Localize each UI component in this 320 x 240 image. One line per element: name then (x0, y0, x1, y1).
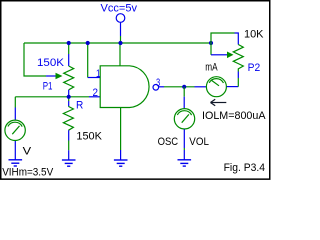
svg-text:1: 1 (96, 68, 101, 80)
nand gate U1 pin 3 stub (159, 86, 164, 88)
wire ammeter right lead (227, 86, 239, 88)
wire output net (164, 86, 195, 88)
svg-text:3: 3 (156, 77, 160, 89)
voltmeter OSC/VOL (174, 109, 194, 129)
svg-text:V: V (23, 145, 32, 157)
svg-text:150K: 150K (76, 131, 102, 143)
potentiometer P2 wiper arrow (227, 52, 234, 59)
svg-text:OSC: OSC (158, 136, 179, 148)
svg-text:mA: mA (205, 62, 218, 74)
annotation arrow (current direction) (211, 99, 227, 105)
nand gate U1 pin 2 stub (89, 96, 100, 98)
ground below OSC meter (178, 160, 192, 166)
junction dot output-voltmeter (182, 85, 186, 89)
ground below R (62, 160, 76, 166)
nand gate U1 body (100, 66, 149, 108)
junction dot rail-P2 (209, 41, 213, 45)
wire input row (y=96.8) (15, 96, 89, 98)
junction dot rail-pin1 (86, 41, 90, 45)
wire Vcc terminal to rail (120, 23, 122, 36)
wire R top lead (68, 97, 70, 101)
potentiometer P1 wiper arrow (56, 73, 63, 80)
svg-text:VOL: VOL (189, 136, 209, 148)
wire V meter top lead (14, 97, 16, 108)
svg-text:P2: P2 (248, 62, 261, 74)
svg-text:Vcc=5v: Vcc=5v (101, 3, 138, 15)
svg-text:IOLM=800uA: IOLM=800uA (202, 110, 266, 122)
potentiometer P1 body (64, 66, 74, 90)
nand gate U1 power pin bottom (120, 108, 122, 151)
ammeter mA (206, 77, 226, 97)
wire output to OSC meter (183, 87, 185, 97)
wire gate ground lead (120, 150, 122, 160)
voltmeter V (5, 120, 25, 140)
wire rail to pin1 (87, 43, 89, 78)
junction dot P1-R (67, 95, 71, 99)
svg-text:P1: P1 (43, 80, 53, 92)
svg-text:VIHm=3.5V: VIHm=3.5V (2, 166, 54, 178)
ground below V meter (9, 160, 23, 166)
svg-text:150K: 150K (37, 57, 65, 69)
wire P1 left branch (box) (24, 43, 46, 76)
power terminal Vcc (116, 14, 125, 23)
svg-text:R: R (76, 100, 83, 112)
potentiometer P2 body (233, 45, 243, 72)
wire rail to P1 top (68, 43, 70, 54)
junction dot rail-P1 (67, 41, 71, 45)
wire P2 wiper branch (210, 43, 212, 55)
wire V meter to ground (14, 141, 16, 160)
svg-text:10K: 10K (244, 28, 264, 40)
svg-text:Fig. P3.4: Fig. P3.4 (224, 162, 265, 174)
resistor R body (63, 106, 73, 130)
wire P1 bottom lead (68, 90, 70, 97)
junction dot rail-Vcc (118, 41, 122, 45)
svg-text:2: 2 (93, 87, 99, 99)
nand gate U1 output bubble (153, 85, 159, 91)
ground below gate (114, 160, 128, 166)
wire OSC meter to ground (183, 129, 185, 148)
wire Vcc rail (24, 42, 211, 44)
nand gate U1 power pin top (119, 43, 121, 66)
wire rail to P2 top (211, 33, 235, 43)
wire R bottom lead (68, 130, 70, 140)
nand gate U1 pin 1 stub (88, 77, 100, 79)
